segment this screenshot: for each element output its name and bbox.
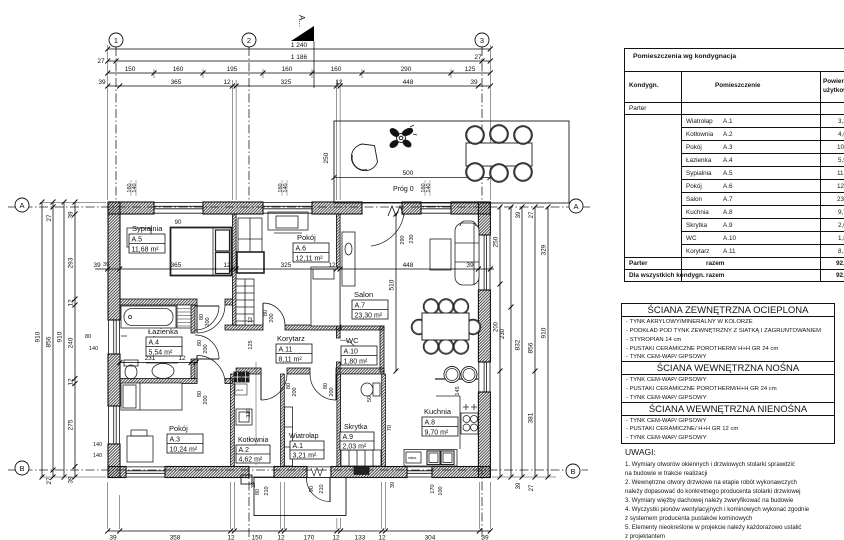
spec list 2	[626, 377, 707, 383]
wiatrołap/skrytka wall (V2 lower)	[337, 374, 341, 467]
totals	[629, 260, 647, 267]
window bottom B1 (pokój A.3)	[126, 467, 165, 478]
svg-text:140: 140	[426, 183, 432, 192]
room label WC A.10	[341, 336, 377, 366]
svg-text:Kuchnia: Kuchnia	[424, 407, 452, 416]
svg-text:A.2: A.2	[239, 447, 250, 454]
svg-text:1: 1	[114, 36, 118, 45]
WC door	[340, 340, 361, 361]
dim chain walls 39/365/12/325/12/448/39	[98, 79, 493, 89]
svg-text:365: 365	[171, 262, 182, 269]
svg-text:856: 856	[46, 336, 53, 347]
svg-text:A: A	[19, 201, 24, 210]
svg-text:290: 290	[401, 66, 412, 73]
window top W3 (beside entry)	[421, 202, 451, 214]
wiatrołap door	[261, 374, 287, 400]
svg-text:9,70 m²: 9,70 m²	[425, 430, 449, 437]
svg-text:365: 365	[171, 79, 182, 86]
kitchen hob	[461, 404, 478, 434]
vent stack icons (korytarz wall)	[234, 372, 249, 395]
svg-text:pzed: pzed	[236, 388, 243, 392]
right dim chain lines	[498, 205, 551, 480]
łazienka dim 231/12	[118, 355, 199, 365]
svg-text:1,80 m²: 1,80 m²	[344, 359, 368, 366]
grid bubble 2	[242, 33, 256, 47]
svg-text:Łazienka: Łazienka	[148, 327, 179, 336]
svg-text:100: 100	[438, 486, 444, 495]
svg-text:12,11 m²: 12,11 m²	[296, 256, 324, 263]
interior wall V1 (sypialnia right)	[232, 214, 236, 325]
svg-text:39: 39	[470, 79, 478, 86]
svg-text:910: 910	[57, 331, 64, 342]
kotłownia exterior door (bottom)	[249, 467, 274, 477]
svg-text:250: 250	[493, 236, 500, 247]
svg-text:39: 39	[68, 211, 75, 219]
svg-text:12: 12	[328, 262, 336, 269]
terrace chairs	[467, 126, 532, 182]
room label Skrytka A.9	[340, 424, 374, 451]
room label Kotłownia A.2	[236, 437, 270, 464]
svg-text:140: 140	[89, 346, 98, 352]
svg-text:39: 39	[93, 262, 101, 269]
svg-text:10,24 m²: 10,24 m²	[170, 447, 198, 454]
svg-text:12: 12	[68, 378, 75, 386]
svg-text:Pokój: Pokój	[169, 424, 188, 433]
łazienka washbasin	[146, 363, 178, 379]
svg-text:160: 160	[331, 66, 342, 73]
pokój A.6 bed	[311, 267, 340, 326]
left extension lines	[40, 202, 106, 477]
svg-text:150: 150	[252, 535, 263, 540]
svg-text:145: 145	[455, 386, 461, 395]
svg-text:A.9: A.9	[343, 434, 354, 441]
svg-text:90: 90	[175, 220, 182, 226]
svg-text:290: 290	[400, 235, 406, 244]
room label Korytarz A.11	[276, 334, 312, 364]
right extension line	[492, 476, 556, 478]
svg-text:170: 170	[430, 484, 436, 493]
window left L2 (łazienka)	[108, 320, 120, 354]
round garden table	[351, 144, 377, 171]
svg-text:210: 210	[319, 484, 325, 493]
grid bubble B right	[566, 464, 580, 478]
svg-text:2: 2	[247, 36, 251, 45]
grid bubble 1	[109, 33, 123, 47]
svg-text:A.3: A.3	[170, 437, 181, 444]
main entry door (bottom, wiatrołap)	[306, 467, 331, 502]
svg-text:230: 230	[409, 234, 415, 243]
interior wall B-left (łazienka/pokój A.3)	[120, 379, 197, 384]
terrace outline	[334, 121, 569, 203]
svg-text:A.8: A.8	[425, 420, 436, 427]
WC top wall	[340, 326, 384, 330]
svg-text:140: 140	[93, 453, 102, 459]
svg-text:27: 27	[529, 211, 535, 218]
svg-text:200: 200	[203, 395, 209, 404]
svg-text:Salon: Salon	[354, 290, 373, 299]
right panel: room table	[0, 0, 844, 1]
svg-text:150: 150	[125, 66, 136, 73]
svg-text:1 186: 1 186	[291, 54, 308, 61]
left dim chain 39/293/12/240/12/275/39	[68, 200, 78, 484]
svg-text:39: 39	[481, 535, 489, 540]
svg-text:240: 240	[68, 337, 75, 348]
svg-text:50: 50	[367, 396, 373, 402]
outer wall bottom piers	[108, 467, 490, 478]
left dim line 910 inner	[57, 200, 67, 480]
chimney block in bottom wall	[354, 467, 369, 475]
WC left wall pieces	[336, 330, 340, 338]
kotłownia right wall	[281, 374, 285, 467]
svg-text:170: 170	[304, 535, 315, 540]
svg-text:329: 329	[541, 244, 548, 255]
grid bubble B left	[15, 461, 29, 475]
salon sofa	[455, 221, 479, 285]
pokój A.3 bed	[121, 383, 182, 410]
right dim labels	[493, 211, 548, 491]
grid line 3 (vertical dash-dot)	[481, 47, 483, 203]
svg-text:39: 39	[516, 482, 522, 489]
svg-text:2,03 m²: 2,03 m²	[343, 444, 367, 451]
svg-text:12: 12	[378, 535, 386, 540]
svg-text:młasz: młasz	[408, 456, 417, 460]
svg-text:3: 3	[480, 36, 484, 45]
UWAGI heading	[625, 447, 656, 457]
svg-text:250: 250	[323, 152, 330, 163]
svg-text:195: 195	[227, 66, 238, 73]
svg-text:Pokój: Pokój	[297, 233, 316, 242]
svg-text:23,30 m²: 23,30 m²	[355, 313, 383, 320]
room label Salon A.7	[352, 290, 388, 320]
svg-text:125: 125	[465, 66, 476, 73]
skrytka door	[310, 374, 336, 400]
table header	[629, 82, 658, 89]
terrace dining table	[466, 143, 532, 166]
svg-text:27: 27	[529, 484, 535, 491]
pokój A.6 door	[263, 303, 285, 325]
spec heading 1	[621, 305, 835, 316]
interior vertical dim 510 (salon)	[389, 212, 399, 374]
pokój A.3 desk	[127, 430, 153, 462]
room rows	[686, 118, 713, 125]
svg-text:39: 39	[516, 211, 522, 218]
dim 500	[332, 170, 493, 180]
interior wall B-mid (korytarz / wiatrołap)	[236, 368, 261, 374]
svg-text:12: 12	[178, 355, 186, 362]
svg-text:293: 293	[68, 257, 75, 268]
svg-text:A: A	[573, 202, 578, 211]
svg-text:Sypialnia: Sypialnia	[132, 224, 163, 233]
svg-text:A.10: A.10	[344, 349, 359, 356]
towel radiator łazienka	[177, 305, 191, 328]
svg-text:A.7: A.7	[355, 303, 366, 310]
svg-text:39: 39	[109, 535, 117, 540]
svg-text:39: 39	[251, 482, 257, 488]
svg-text:856: 856	[528, 342, 535, 353]
svg-text:910: 910	[35, 331, 42, 342]
svg-text:832: 832	[515, 339, 522, 350]
svg-text:A.5: A.5	[132, 237, 143, 244]
svg-text:910: 910	[541, 327, 548, 338]
porch slab	[241, 475, 346, 516]
svg-text:125: 125	[248, 340, 254, 349]
spec heading 2	[621, 363, 835, 374]
svg-text:WC: WC	[346, 336, 359, 345]
svg-text:Skrytka: Skrytka	[344, 424, 367, 431]
room label Wiatrołap A.1	[289, 433, 324, 460]
window right R1 (salon)	[478, 235, 490, 290]
svg-text:230: 230	[500, 328, 506, 339]
svg-text:70: 70	[387, 425, 393, 431]
window right R2 (kuchnia)	[478, 362, 490, 392]
svg-text:12: 12	[332, 535, 340, 540]
svg-text:200: 200	[205, 317, 211, 326]
salon radiator/shelf	[342, 232, 355, 286]
bold cabinet above stair	[237, 252, 264, 273]
small door/passage dims	[197, 234, 461, 495]
outer wall left piers	[108, 202, 120, 478]
svg-text:358: 358	[170, 535, 181, 540]
svg-text:200: 200	[269, 313, 275, 322]
svg-text:Próg 0: Próg 0	[393, 186, 414, 193]
left dim line 27/856/27	[46, 200, 56, 485]
svg-text:304: 304	[425, 535, 436, 540]
sypialnia bed	[171, 228, 232, 276]
svg-text:510: 510	[389, 279, 396, 290]
svg-text:B: B	[19, 464, 24, 473]
WC toilet	[361, 383, 380, 396]
svg-text:500: 500	[403, 170, 414, 177]
grid line 1 (vertical dash-dot)	[115, 47, 117, 203]
outer wall right piers	[478, 202, 490, 478]
bottom dim chain 39/358/12/150/12/170/12/133/12/304/39	[105, 529, 493, 540]
łazienka bathtub	[121, 306, 176, 328]
svg-text:210: 210	[264, 486, 270, 495]
kotłownia boiler	[236, 409, 252, 425]
svg-text:11,68 m²: 11,68 m²	[132, 247, 160, 254]
left dim line 910 outer	[35, 200, 45, 480]
kotłownia dim leader	[255, 362, 257, 465]
grid line A (horizontal dash-dot)	[8, 206, 590, 208]
window top W2	[263, 202, 312, 214]
grid line B (horizontal dash-dot)	[8, 469, 588, 471]
pokój A.6 wardrobe	[238, 218, 262, 260]
spec heading 3	[621, 404, 835, 415]
svg-text:4,62 m²: 4,62 m²	[239, 457, 263, 464]
svg-text:Korytarz: Korytarz	[277, 334, 305, 343]
svg-text:140: 140	[283, 183, 289, 192]
window top W1	[154, 202, 203, 214]
svg-text:231: 231	[145, 355, 156, 362]
room label Pokój A.6	[293, 233, 329, 263]
attic stair	[236, 279, 254, 325]
grid line 2 (vertical dash-dot)	[248, 47, 250, 203]
section marker A (top)	[291, 15, 314, 88]
small window dims left	[85, 262, 109, 459]
skrytka shelves	[341, 450, 381, 466]
skrytka/kuchnia wall (V3 lower)	[382, 374, 386, 467]
svg-text:200: 200	[329, 387, 335, 396]
table title	[633, 53, 736, 60]
svg-text:A.6: A.6	[296, 246, 307, 253]
grid bubble A right	[569, 199, 583, 213]
svg-text:12: 12	[277, 535, 285, 540]
window bottom B2 (kuchnia)	[407, 467, 432, 478]
svg-text:B: B	[570, 467, 575, 476]
row parter	[629, 105, 646, 112]
svg-text:310: 310	[246, 408, 252, 417]
kitchen bar counter	[435, 367, 478, 383]
bottom extension lines	[108, 482, 491, 529]
sypialnia dresser	[127, 228, 151, 247]
sypialnia door	[197, 305, 225, 333]
grid bubble A left	[15, 198, 29, 212]
svg-text:12: 12	[223, 262, 231, 269]
łazienka toilet	[124, 360, 138, 379]
room label Łazienka A.4	[146, 327, 182, 357]
svg-text:27: 27	[46, 477, 53, 485]
interior horizontal dim chain	[93, 262, 494, 272]
table borders	[624, 48, 844, 49]
svg-text:90: 90	[309, 486, 315, 492]
room label Sypialnia A.5	[129, 224, 165, 254]
salon dining table	[422, 313, 469, 340]
svg-text:200: 200	[494, 321, 500, 332]
svg-text:A.11: A.11	[279, 347, 293, 354]
łazienka right wall	[191, 305, 195, 333]
svg-text:325: 325	[281, 79, 292, 86]
WC right wall	[380, 326, 384, 372]
svg-text:12: 12	[223, 79, 231, 86]
window head dims above top wall	[127, 180, 432, 196]
svg-text:325: 325	[281, 262, 292, 269]
svg-text:140: 140	[132, 183, 138, 192]
svg-text:3,21 m²: 3,21 m²	[293, 453, 317, 460]
notes	[625, 461, 795, 468]
main entry door (top, into salon)	[362, 202, 404, 246]
svg-text:448: 448	[403, 79, 414, 86]
spec list 3	[626, 418, 707, 424]
spec box borders	[621, 303, 835, 304]
svg-text:160: 160	[282, 66, 293, 73]
salon coffee table	[430, 239, 451, 270]
salon dining chairs	[412, 300, 480, 354]
window left L3 (pokój A.3)	[108, 406, 120, 444]
svg-text:80: 80	[85, 334, 91, 340]
svg-text:Wiatrołap: Wiatrołap	[289, 433, 319, 440]
kitchen counter edge	[436, 396, 460, 449]
svg-text:39: 39	[466, 262, 474, 269]
svg-text:A.4: A.4	[149, 340, 160, 347]
extension lines	[108, 45, 491, 200]
svg-text:12: 12	[68, 299, 75, 307]
pokój A.3 door	[197, 356, 225, 384]
kotłownia left wall (V1 lower)	[231, 374, 235, 467]
room label Kuchnia A.8	[422, 407, 458, 437]
svg-text:27: 27	[474, 54, 482, 61]
kitchen base cabinets	[404, 450, 457, 467]
svg-text:A.1: A.1	[293, 443, 304, 450]
outer wall top piers	[108, 202, 490, 214]
right panel: wall spec + notes	[0, 0, 844, 1]
svg-text:160: 160	[173, 66, 184, 73]
dim chain window axes 150/160/195/160/160/290/125	[105, 66, 493, 76]
svg-text:39: 39	[98, 79, 106, 86]
dim chain 27/1186/27	[97, 54, 492, 65]
svg-text:448: 448	[403, 262, 414, 269]
svg-text:80: 80	[255, 489, 261, 495]
room label Pokój A.3	[167, 424, 203, 454]
wiatrołap closet strip	[285, 407, 293, 466]
interior wall A-east stubs (pokój A.6 / korytarz)	[225, 325, 263, 330]
svg-text:381: 381	[528, 412, 535, 423]
svg-text:27: 27	[46, 214, 53, 222]
svg-text:275: 275	[68, 419, 75, 430]
spec list 1	[626, 319, 753, 325]
svg-text:1 240: 1 240	[291, 42, 308, 49]
svg-text:200: 200	[203, 344, 209, 353]
svg-text:12: 12	[227, 535, 235, 540]
svg-text:200: 200	[292, 387, 298, 396]
svg-text:Kotłownia: Kotłownia	[238, 437, 268, 444]
pokój A.6 desk with monitor	[268, 212, 308, 233]
łazienka fittings	[121, 336, 158, 344]
grid bubble 3	[475, 33, 489, 47]
svg-text:12: 12	[248, 317, 254, 323]
interior wall V2 (pokój A.6 / salon)	[336, 214, 340, 330]
grill/plant icon	[389, 125, 417, 149]
łazienka door arcs	[195, 306, 219, 359]
svg-text:140: 140	[93, 442, 102, 448]
interior wall A (sypialnia/łazienka)	[120, 299, 197, 305]
dim chain total 1240	[105, 42, 493, 52]
svg-text:8,11 m²: 8,11 m²	[279, 357, 303, 364]
svg-text:27: 27	[97, 58, 105, 65]
svg-text:133: 133	[355, 535, 366, 540]
svg-text:A...: A...	[297, 15, 306, 27]
svg-text:39: 39	[390, 482, 396, 488]
